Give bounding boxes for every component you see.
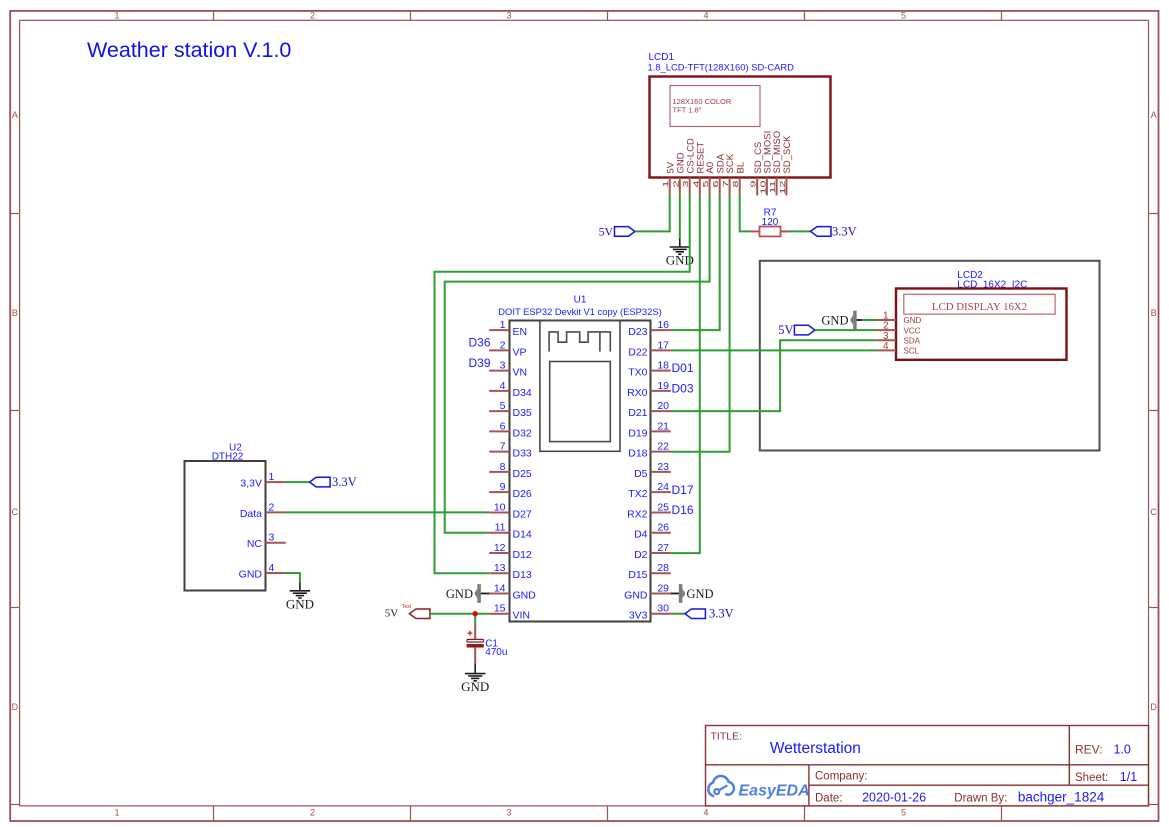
svg-text:GND: GND (286, 596, 314, 611)
svg-text:VP: VP (513, 346, 527, 358)
svg-text:GND: GND (904, 316, 922, 325)
svg-text:3: 3 (506, 11, 511, 21)
svg-text:4: 4 (883, 341, 889, 352)
capacitor C1 bottom lead (474, 647, 476, 663)
LCD1 pin 4 (RESET) stub (699, 178, 701, 196)
svg-text:2: 2 (310, 11, 315, 21)
U1 pin 18 (TX0) stub (651, 370, 671, 372)
svg-text:3: 3 (506, 807, 511, 817)
svg-text:TX2: TX2 (628, 488, 647, 500)
U2 pin 1 (3,3V) stub (266, 481, 286, 483)
svg-text:3.3V: 3.3V (709, 607, 734, 621)
svg-text:3.3V: 3.3V (332, 475, 357, 489)
ground bar symbol at LCD2 pin1 (850, 315, 853, 325)
U1 ESP32 module outline drawing (540, 321, 620, 452)
U1 ESP32 shield rectangle drawing (550, 362, 611, 442)
svg-text:D03: D03 (672, 381, 694, 395)
svg-text:1: 1 (500, 319, 506, 331)
U1 pin 8 (D25) stub (489, 471, 509, 473)
LCD1 pin 6 (SDA) stub (719, 178, 721, 196)
svg-text:D33: D33 (513, 448, 532, 460)
svg-text:D25: D25 (513, 468, 532, 480)
U1 pin 13 (D13) stub (489, 572, 509, 574)
wire U2 pin2 Data to U1 D27 (286, 511, 489, 513)
LCD1 pin 3 (CS-LCD) stub (689, 178, 691, 196)
svg-text:9: 9 (500, 481, 506, 493)
net flag 5V (at U1 VIN) symbol (409, 609, 430, 619)
title block outer rectangle (706, 726, 1149, 806)
LCD2 pin 1 (GND) stub (877, 319, 896, 321)
U1 pin 14 (GND) stub (489, 592, 509, 594)
svg-text:1/1: 1/1 (1120, 770, 1137, 784)
U1 pin 29 (GND) stub (651, 592, 671, 594)
sheet frame row labels left (12, 110, 19, 712)
svg-text:4: 4 (269, 562, 275, 574)
svg-text:8: 8 (732, 180, 740, 187)
ground symbol GND (below U2 pin4) (290, 590, 310, 592)
ground bar symbol at U1 pin14 (474, 588, 477, 598)
svg-text:5V: 5V (778, 323, 793, 337)
LCD2 pin 3 (SDA) stub (877, 339, 896, 341)
svg-text:D01: D01 (672, 361, 694, 375)
svg-text:Wetterstation: Wetterstation (770, 740, 861, 757)
svg-text:D5: D5 (634, 468, 648, 480)
ground symbol GND (below C1) (465, 673, 485, 675)
svg-text:DOIT ESP32 Devkit V1 copy (ESP: DOIT ESP32 Devkit V1 copy (ESP32S) (498, 306, 661, 317)
svg-text:BL: BL (735, 162, 746, 174)
U1 pin 12 (D12) stub (489, 552, 509, 554)
wire LCD1 pin5 A0 to U1 D14 (445, 195, 710, 532)
wire U1 pin30 3V3 to 3.3V flag (671, 613, 685, 615)
svg-text:6: 6 (712, 180, 720, 187)
svg-text:3: 3 (269, 532, 275, 544)
U1 pin 24 (TX2) stub (651, 491, 671, 493)
svg-text:bachger_1824: bachger_1824 (1018, 790, 1105, 805)
svg-text:EN: EN (513, 326, 528, 338)
U1 pin 7 (D33) stub (489, 451, 509, 453)
EasyEDA logo cloud slash (720, 785, 728, 790)
net flag 5V (top) symbol (615, 227, 636, 237)
svg-text:TFT 1.8": TFT 1.8" (673, 106, 702, 115)
svg-text:D17: D17 (672, 483, 694, 497)
svg-text:4: 4 (692, 180, 700, 187)
svg-text:18: 18 (657, 360, 669, 372)
capacitor C1 top lead (474, 624, 476, 639)
svg-text:B: B (1151, 308, 1157, 318)
svg-text:D22: D22 (628, 346, 647, 358)
LCD1 pin 11 (SD_MISO) stub (776, 178, 778, 196)
U1 ESP32 antenna zigzag drawing (549, 332, 610, 352)
svg-text:D23: D23 (628, 326, 647, 338)
LCD1 inner screen rectangle (670, 86, 760, 127)
LCD1 pin 8 (BL) stub (739, 178, 741, 196)
svg-text:7: 7 (722, 180, 730, 187)
resistor R7 right lead (781, 230, 790, 232)
wire U2 pin1 to 3.3V flag (286, 481, 310, 483)
LCD1 pin 9 (SD_CS) stub (756, 178, 758, 196)
svg-text:GND: GND (687, 587, 714, 601)
svg-text:SCL: SCL (904, 347, 920, 356)
svg-text:15: 15 (494, 603, 506, 615)
svg-text:23: 23 (657, 461, 669, 473)
wire LCD1 pin8 BL to R7 (740, 195, 751, 231)
svg-text:11: 11 (495, 522, 506, 534)
svg-text:4: 4 (703, 807, 708, 817)
svg-text:10: 10 (494, 501, 506, 513)
svg-text:6: 6 (500, 420, 506, 432)
wire LCD2 pin1 to ground bar (857, 319, 862, 321)
svg-text:D: D (12, 702, 19, 712)
svg-text:28: 28 (657, 562, 669, 574)
svg-text:14: 14 (494, 582, 506, 594)
svg-text:D4: D4 (634, 529, 648, 541)
LCD2 outer enclosure box (760, 261, 1100, 451)
svg-text:21: 21 (657, 420, 669, 432)
svg-text:VIN: VIN (513, 610, 531, 622)
EasyEDA logo cloud eye dot (714, 789, 719, 794)
U1 pin 10 (D27) stub (489, 511, 509, 513)
wire U2 pin4 to ground (286, 573, 300, 582)
svg-text:29: 29 (657, 582, 669, 594)
svg-text:470u: 470u (485, 647, 507, 658)
svg-text:9: 9 (750, 180, 758, 187)
capacitor C1 negative plate (467, 644, 484, 647)
svg-text:D19: D19 (628, 427, 647, 439)
wire LCD1 pin7 SCK to U1 D18 (671, 195, 730, 451)
svg-text:GND: GND (513, 589, 537, 601)
wire LCD1 pin6 SDA to U1 D23 (671, 195, 720, 330)
U1 pin 3 (VN) stub (489, 370, 509, 372)
svg-text:GND: GND (461, 679, 489, 694)
svg-text:TITLE:: TITLE: (711, 731, 743, 743)
net flag 3.3V (at U2 pin1) symbol (310, 477, 331, 487)
svg-text:4: 4 (703, 11, 708, 21)
svg-text:C: C (1150, 507, 1157, 517)
svg-text:1: 1 (662, 180, 670, 187)
wire 5V flag to U1 VIN (430, 613, 489, 615)
svg-text:U1: U1 (574, 295, 587, 306)
svg-text:2020-01-26: 2020-01-26 (862, 791, 926, 805)
LCD2 component body (896, 289, 1067, 360)
wire LCD1 pin4 RESET to U1 D2 (671, 195, 700, 553)
svg-text:D: D (1150, 702, 1157, 712)
svg-text:13: 13 (494, 562, 506, 574)
U1 pin 20 (D21) stub (651, 410, 671, 412)
svg-text:2: 2 (500, 339, 506, 351)
EasyEDA logo cloud icon (708, 776, 734, 796)
svg-text:TX0: TX0 (628, 367, 647, 379)
LCD1 pin 5 (A0) stub (709, 178, 711, 196)
ground lead (below LCD1 pin2) (679, 239, 681, 248)
wire junction to capacitor C1 (474, 614, 476, 624)
svg-text:RX2: RX2 (627, 508, 648, 520)
svg-text:1: 1 (114, 11, 119, 21)
wire U1 pin29 to ground bar (671, 592, 679, 594)
svg-text:30: 30 (657, 603, 669, 615)
svg-text:REV:: REV: (1075, 742, 1103, 756)
ground symbol GND (below LCD1 pin2) (670, 246, 690, 248)
U1 pin 22 (D18) stub (651, 451, 671, 453)
svg-text:D13: D13 (513, 569, 532, 581)
svg-text:3V3: 3V3 (629, 610, 648, 622)
svg-text:1: 1 (114, 807, 119, 817)
U1 pin 1 (EN) stub (489, 329, 509, 331)
svg-text:D34: D34 (513, 387, 532, 399)
wire U1 D21 to LCD2 SDA (671, 340, 877, 411)
LCD1 pin 7 (SCK) stub (729, 178, 731, 196)
svg-text:Weather station V.1.0: Weather station V.1.0 (87, 38, 291, 62)
svg-text:VN: VN (513, 367, 528, 379)
U1 pin 17 (D22) stub (651, 349, 671, 351)
LCD2 inner display rectangle (904, 294, 1055, 314)
svg-text:D18: D18 (628, 448, 647, 460)
wire R7 to 3.3V flag (790, 230, 811, 232)
svg-text:NC: NC (247, 538, 263, 550)
svg-text:D21: D21 (628, 407, 647, 419)
U2 pin 4 (GND) stub (266, 572, 286, 574)
svg-text:12: 12 (494, 542, 506, 554)
U1 pin 2 (VP) stub (489, 349, 509, 351)
LCD1 pin 12 (SD_SCK) stub (785, 178, 787, 196)
U1 pin 6 (D32) stub (489, 430, 509, 432)
svg-text:Drawn By:: Drawn By: (954, 793, 1007, 805)
svg-text:1: 1 (269, 471, 275, 483)
sheet frame column labels bottom (114, 807, 906, 817)
U1 pin 25 (RX2) stub (651, 511, 671, 513)
svg-text:Sheet:: Sheet: (1075, 772, 1108, 784)
U1 pin 19 (RX0) stub (651, 390, 671, 392)
svg-text:4: 4 (500, 380, 506, 392)
svg-text:Data: Data (240, 508, 262, 520)
svg-text:GND: GND (446, 587, 473, 601)
U1 pin 26 (D4) stub (651, 532, 671, 534)
svg-text:5: 5 (901, 11, 906, 21)
svg-text:2: 2 (310, 807, 315, 817)
svg-text:Company:: Company: (815, 771, 867, 783)
svg-text:7: 7 (500, 441, 506, 453)
resistor R7 left lead (751, 230, 760, 232)
net flag 5V (at LCD2 VCC) symbol (794, 325, 815, 335)
svg-text:D32: D32 (513, 427, 532, 439)
svg-text:D26: D26 (513, 488, 532, 500)
svg-text:16: 16 (657, 319, 669, 331)
LCD2 pin 4 (SCL) stub (877, 349, 896, 351)
net flag 3.3V (right of R7) symbol (811, 227, 832, 237)
svg-text:5V: 5V (599, 225, 614, 239)
svg-text:GND: GND (821, 314, 848, 328)
svg-text:LCD DISPLAY 16X2: LCD DISPLAY 16X2 (932, 301, 1027, 313)
U2 pin 2 (Data) stub (266, 511, 286, 513)
svg-text:D39: D39 (468, 356, 490, 370)
svg-text:25: 25 (657, 501, 669, 513)
capacitor C1 plus sign (468, 631, 473, 636)
svg-text:3: 3 (682, 180, 690, 187)
title block vertical divider left of REV/Sheet (1068, 726, 1070, 786)
svg-text:B: B (12, 308, 18, 318)
U1 pin 15 (VIN) stub (489, 613, 509, 615)
svg-text:D2: D2 (634, 549, 648, 561)
resistor R7 body (760, 227, 781, 237)
title block vertical divider right of logo cell (808, 765, 810, 806)
svg-text:D27: D27 (513, 508, 532, 520)
U1 pin 11 (D14) stub (489, 532, 509, 534)
svg-text:SDA: SDA (904, 336, 921, 345)
svg-text:3.3V: 3.3V (832, 225, 857, 239)
svg-text:GND: GND (239, 569, 263, 581)
svg-text:EasyEDA: EasyEDA (739, 783, 810, 800)
svg-text:27: 27 (657, 542, 669, 554)
LCD1 pin 1 (5V) stub (669, 178, 671, 196)
LCD2 pin 2 (VCC) stub (877, 329, 896, 331)
svg-text:12: 12 (779, 180, 787, 194)
U1 component body (510, 321, 651, 622)
svg-text:1.0: 1.0 (1114, 742, 1131, 756)
svg-text:5V: 5V (385, 608, 399, 620)
ground lead below U2 pin4 (299, 582, 301, 591)
svg-text:1.8_LCD-TFT(128X160) SD-CARD: 1.8_LCD-TFT(128X160) SD-CARD (648, 62, 795, 73)
U1 pin 28 (D15) stub (651, 572, 671, 574)
wire LCD1 pin2 to ground (679, 195, 681, 238)
svg-text:SD_SCK: SD_SCK (782, 135, 793, 174)
sheet frame row labels right (1150, 110, 1157, 712)
svg-text:D35: D35 (513, 407, 532, 419)
U1 pin 5 (D35) stub (489, 410, 509, 412)
net flag 3.3V (at U1 pin30) symbol (685, 609, 706, 619)
wire LCD1 pin3 CS-LCD to U1 D13 (435, 195, 690, 573)
ground bar symbol at U1 pin29 (679, 584, 682, 603)
svg-text:2: 2 (672, 180, 680, 187)
capacitor C1 positive plate (467, 639, 484, 642)
U1 pin 16 (D23) stub (651, 329, 671, 331)
svg-text:Text: Text (402, 604, 412, 610)
svg-text:D12: D12 (513, 549, 532, 561)
svg-text:D36: D36 (468, 336, 490, 350)
svg-text:D16: D16 (672, 503, 694, 517)
svg-text:8: 8 (500, 461, 506, 473)
wire (green) ground bar to LCD2 pin1 (862, 319, 877, 321)
svg-text:3,3V: 3,3V (240, 478, 262, 490)
svg-text:D15: D15 (628, 569, 647, 581)
svg-text:Date:: Date: (815, 793, 843, 805)
title block horizontal divider under Company row (809, 784, 1149, 786)
LCD1 pin 2 (GND) stub (679, 178, 681, 196)
svg-text:C: C (12, 507, 19, 517)
wire U1 pin14 to ground bar (481, 592, 489, 594)
wire U1 D22 to LCD2 SCL (671, 349, 877, 351)
svg-text:RX0: RX0 (627, 387, 648, 399)
U1 pin 27 (D2) stub (651, 552, 671, 554)
title block horizontal divider under TITLE row (706, 764, 1149, 766)
svg-text:2: 2 (269, 501, 275, 513)
svg-text:5: 5 (901, 807, 906, 817)
svg-text:A: A (12, 110, 18, 120)
U1 pin 23 (D5) stub (651, 471, 671, 473)
svg-text:10: 10 (759, 180, 767, 194)
svg-text:5: 5 (702, 180, 710, 187)
svg-text:20: 20 (657, 400, 669, 412)
svg-text:A: A (1151, 110, 1157, 120)
LCD1 pin 10 (SD_MOSI) stub (766, 178, 768, 196)
LCD1 inner screen text (673, 97, 732, 115)
U1 pin 30 (3V3) stub (651, 613, 671, 615)
ground lead below C1 (474, 663, 476, 673)
sheet frame column labels top (114, 11, 906, 21)
svg-text:26: 26 (657, 522, 669, 534)
svg-text:5: 5 (500, 400, 506, 412)
svg-text:VCC: VCC (904, 326, 921, 335)
svg-text:19: 19 (657, 380, 669, 392)
svg-text:17: 17 (657, 339, 669, 351)
svg-text:24: 24 (657, 481, 669, 493)
LCD1 component body (1.8 LCD-TFT module) (650, 77, 831, 178)
wire 5V flag to LCD1 pin1 (635, 195, 670, 231)
svg-text:3: 3 (500, 360, 506, 372)
U1 pin 4 (D34) stub (489, 390, 509, 392)
svg-text:11: 11 (769, 180, 777, 193)
svg-text:GND: GND (624, 589, 648, 601)
U2 component body (185, 461, 266, 591)
wire 5V flag to LCD2 VCC (815, 329, 877, 331)
U2 pin 3 (NC) stub (266, 542, 286, 544)
U1 pin 21 (D19) stub (651, 430, 671, 432)
svg-text:D14: D14 (513, 529, 532, 541)
svg-text:22: 22 (657, 441, 669, 453)
junction dot at VIN (473, 611, 478, 616)
U1 pin 9 (D26) stub (489, 491, 509, 493)
